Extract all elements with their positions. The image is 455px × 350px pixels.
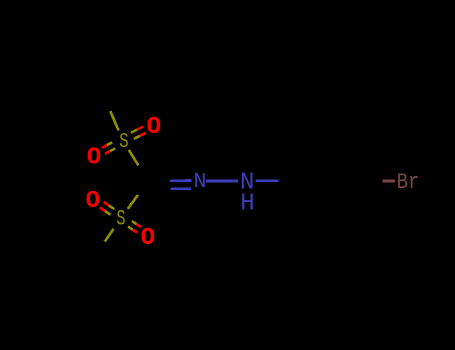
- bond S2-C0: [128, 181, 148, 209]
- atom label O2: [87, 145, 101, 172]
- double bond C0=N1 second line: [151, 188, 191, 191]
- bond N1-N2: [206, 180, 238, 183]
- atom label Br (bromine): [397, 170, 420, 195]
- bond S1-CH3a (methyl): [102, 92, 119, 131]
- atom label S1 (upper sulfur): [119, 131, 129, 154]
- svg-text:O: O: [86, 188, 100, 215]
- double bond S1=O1: [131, 127, 146, 139]
- bond N2-C1 (to ring): [255, 179, 301, 182]
- svg-text:O: O: [147, 114, 161, 141]
- svg-text:O: O: [87, 145, 101, 172]
- atom label O1: [147, 114, 161, 141]
- atom label O3: [86, 188, 100, 215]
- bond S1-C0: [129, 150, 148, 181]
- atom label N1 (imine nitrogen): [194, 170, 207, 194]
- double bond S2=O3: [100, 202, 115, 215]
- svg-text:S: S: [119, 131, 129, 154]
- double bond S2=O4: [128, 221, 141, 233]
- svg-text:O: O: [141, 225, 155, 252]
- svg-text:H: H: [240, 190, 254, 217]
- atom label O4: [141, 225, 155, 252]
- atom label H (on N2): [240, 190, 254, 217]
- bond C4-Br: [370, 180, 395, 183]
- bond S2-CH3b (methyl): [96, 229, 114, 254]
- benzene ring (black carbon skeleton): [302, 151, 371, 210]
- double bond C0=N1 main line: [148, 179, 192, 182]
- svg-text:Br: Br: [397, 170, 420, 195]
- svg-text:N: N: [194, 170, 207, 194]
- svg-text:S: S: [116, 206, 125, 231]
- atom label N2 (amine nitrogen): [240, 170, 254, 197]
- atom label S2 (lower sulfur): [116, 206, 125, 231]
- double bond S1=O2: [102, 142, 116, 153]
